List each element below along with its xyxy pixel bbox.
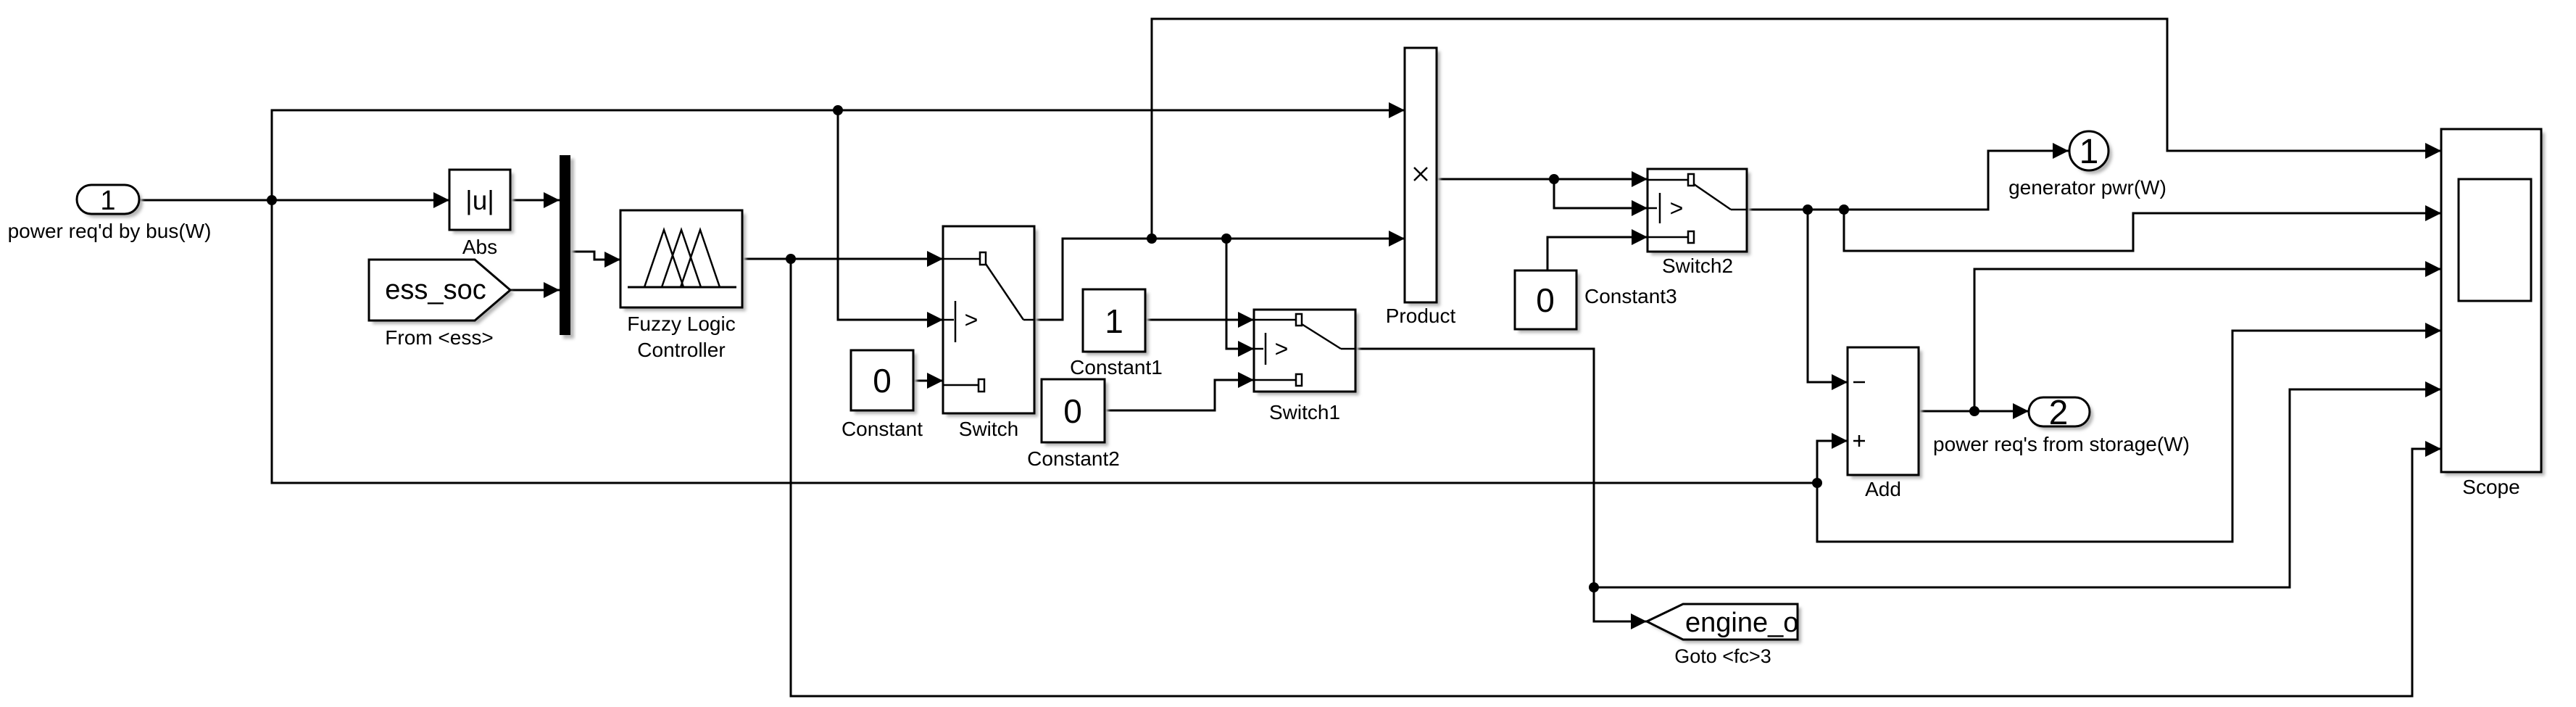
svg-text:Constant3: Constant3 — [1584, 285, 1677, 307]
svg-text:Switch: Switch — [959, 418, 1018, 440]
svg-text:Abs: Abs — [462, 236, 497, 258]
svg-text:|u|: |u| — [465, 186, 494, 215]
svg-text:From <ess>: From <ess> — [385, 326, 493, 349]
wire: Constant to Switch input 3 — [913, 373, 943, 389]
Mux (black bar) — [560, 155, 574, 339]
wire: Product output to Switch2 input 1, junction node H branching to Switch2 control — [1437, 171, 1648, 216]
svg-text:2: 2 — [2049, 394, 2069, 432]
wire: From ess_soc to Mux input 2 — [510, 282, 560, 298]
block Product — [1386, 48, 1456, 327]
svg-text:0: 0 — [1063, 392, 1082, 430]
From tag ess_soc — [369, 260, 514, 349]
block Abs — [449, 170, 514, 258]
wire: Inport 1 to Abs with junction node A — [139, 192, 449, 208]
wire: Constant2 to Switch1 input 3 — [1105, 372, 1254, 410]
svg-text:power req's from storage(W): power req's from storage(W) — [1933, 433, 2190, 455]
wire: Switch2 output to Outport 1, junctions node I and node J — [1747, 143, 2069, 215]
svg-text:ess_soc: ess_soc — [385, 275, 486, 305]
svg-text:1: 1 — [1105, 302, 1123, 340]
svg-text:Scope: Scope — [2462, 476, 2519, 498]
wire: node D down along bottom to Scope input 6 — [791, 259, 2441, 696]
Goto tag engine_on — [1647, 604, 1814, 667]
svg-text:generator pwr(W): generator pwr(W) — [2008, 176, 2166, 199]
block Fuzzy Logic Controller — [620, 210, 746, 361]
wire: Switch1 output down to junction node G — [1355, 349, 1599, 592]
svg-text:Constant1: Constant1 — [1070, 356, 1163, 379]
block Constant3 (0) — [1515, 270, 1677, 333]
block Scope — [2441, 129, 2545, 498]
block Constant1 (1) — [1070, 289, 1163, 379]
wire: node E up over the top to Scope input 1 — [1152, 19, 2441, 239]
svg-text:Constant2: Constant2 — [1027, 447, 1120, 470]
block Switch — [943, 226, 1038, 440]
svg-text:>: > — [1670, 195, 1684, 221]
wire: Fuzzy Logic Controller to Switch input 1, junction node D — [742, 251, 943, 267]
svg-text:>: > — [965, 307, 979, 333]
wire: node G right and up to Scope input 5 — [1594, 381, 2441, 587]
svg-text:0: 0 — [873, 362, 892, 400]
svg-text:1: 1 — [100, 186, 115, 216]
svg-text:0: 0 — [1536, 281, 1555, 319]
wire: Add output to Outport 2, junction node K — [1919, 403, 2029, 419]
svg-text:Constant: Constant — [842, 418, 923, 440]
wire: Constant1 to Switch1 input 1 — [1145, 312, 1254, 328]
wire: node F down to Switch1 control input 2 — [1226, 239, 1254, 357]
inport 1 (power req'd by bus) — [8, 185, 212, 242]
svg-text:engine_on: engine_on — [1685, 608, 1814, 638]
wire: node A down and right to Add plus input, junction node C — [272, 200, 1848, 488]
svg-text:Switch1: Switch1 — [1269, 401, 1340, 423]
outport 2 (power req from storage) — [1933, 394, 2190, 455]
wire: node B down to Switch control input 2 — [838, 110, 943, 328]
wire: node C down to Scope input 4 — [1817, 323, 2441, 542]
svg-text:1: 1 — [2080, 133, 2099, 171]
wire: node G down to Goto engine_on — [1594, 587, 1647, 629]
svg-text:Product: Product — [1386, 305, 1456, 327]
svg-text:Goto <fc>3: Goto <fc>3 — [1674, 645, 1771, 667]
block Switch1 — [1254, 310, 1359, 423]
block Constant (0) — [842, 350, 923, 440]
wire: Constant3 up to Switch2 input 3 — [1547, 229, 1648, 270]
svg-text:Fuzzy Logic: Fuzzy Logic — [627, 313, 735, 335]
block Switch2 — [1648, 169, 1750, 277]
wire: Switch output to Product input 2, junctions node E and node F — [1034, 231, 1405, 320]
wire: node I down to Add minus input — [1808, 210, 1848, 390]
wire: node J down and right to Scope input 2 — [1844, 205, 2441, 251]
svg-text:Switch2: Switch2 — [1662, 255, 1733, 277]
svg-text:Controller: Controller — [637, 339, 725, 361]
svg-text:power req'd by bus(W): power req'd by bus(W) — [8, 220, 212, 242]
block Add — [1848, 347, 1922, 500]
wire: Abs to Mux input 1 — [510, 192, 560, 208]
block Constant2 (0) — [1027, 379, 1120, 470]
svg-text:Add: Add — [1865, 478, 1901, 500]
wire: node K up to Scope input 3 — [1974, 261, 2441, 411]
svg-text:>: > — [1275, 336, 1289, 362]
wire: node A up to Product input 1, junction node B — [272, 102, 1405, 200]
wire: Mux to Fuzzy Logic Controller — [570, 252, 620, 268]
outport 1 (generator pwr) — [2008, 131, 2166, 199]
